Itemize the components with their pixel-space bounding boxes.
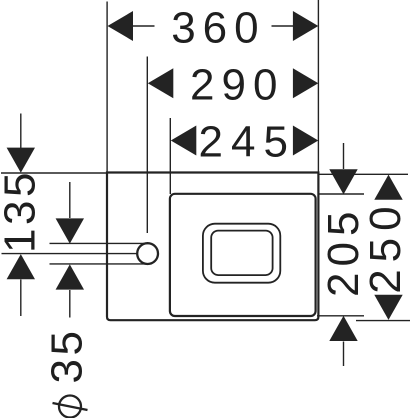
ext line right shared bbox=[317, 0, 319, 173]
arrow 250 down bbox=[374, 295, 402, 320]
ext line left 290 / hole axis bbox=[146, 57, 148, 234]
arrow 360 right bbox=[293, 11, 318, 41]
svg-text:35: 35 bbox=[43, 328, 92, 384]
arrow 245 right bbox=[293, 126, 318, 156]
dim d35 stub bottom bbox=[69, 290, 71, 318]
arrow 250 up bbox=[374, 175, 402, 200]
svg-text:360: 360 bbox=[171, 3, 265, 52]
basin inner bowl bbox=[170, 194, 316, 316]
basin outer body bbox=[107, 173, 318, 321]
drain outer ring bbox=[203, 224, 280, 283]
arrow 135 up bbox=[7, 254, 35, 279]
arrow d35 up bbox=[56, 264, 84, 289]
ref line hole top tangent bbox=[50, 242, 149, 244]
svg-text:290: 290 bbox=[190, 61, 284, 110]
arrow 135 down bbox=[7, 148, 35, 173]
arrow 290 left bbox=[148, 68, 174, 98]
arrow 290 right bbox=[293, 68, 318, 98]
arrow d35 down bbox=[56, 218, 84, 243]
dim 360 tail left bbox=[133, 25, 155, 27]
svg-text:245: 245 bbox=[199, 118, 296, 167]
faucet hole circle bbox=[137, 243, 158, 264]
svg-text:135: 135 bbox=[0, 169, 45, 253]
label d35 diameter symbol bbox=[53, 396, 88, 418]
ext line left 245 bbox=[169, 118, 171, 194]
ref line hole bottom tangent bbox=[50, 263, 149, 265]
ref line bowl bottom right bbox=[317, 315, 364, 317]
ext line left 360 bbox=[106, 2, 108, 173]
dim 135 stub bottom bbox=[20, 280, 22, 317]
dim 135 stub top bbox=[20, 114, 22, 149]
arrow 205 up bbox=[329, 316, 357, 341]
ref line bowl top right bbox=[318, 193, 364, 195]
ref line body bottom right bbox=[356, 320, 410, 322]
arrow 245 left bbox=[171, 126, 197, 156]
drain inner ring bbox=[211, 231, 272, 276]
ref line body top left bbox=[1, 172, 107, 174]
ref line body top right bbox=[318, 173, 408, 175]
dim 205 stub bottom bbox=[343, 342, 345, 367]
svg-text:250: 250 bbox=[361, 199, 410, 293]
dim 205 stub top bbox=[343, 143, 345, 169]
arrow 360 left bbox=[108, 11, 134, 41]
dim 360 tail right bbox=[272, 25, 295, 27]
arrow 205 down bbox=[329, 169, 357, 194]
dim d35 stub top bbox=[69, 182, 71, 218]
ref line hole center bbox=[2, 253, 137, 255]
